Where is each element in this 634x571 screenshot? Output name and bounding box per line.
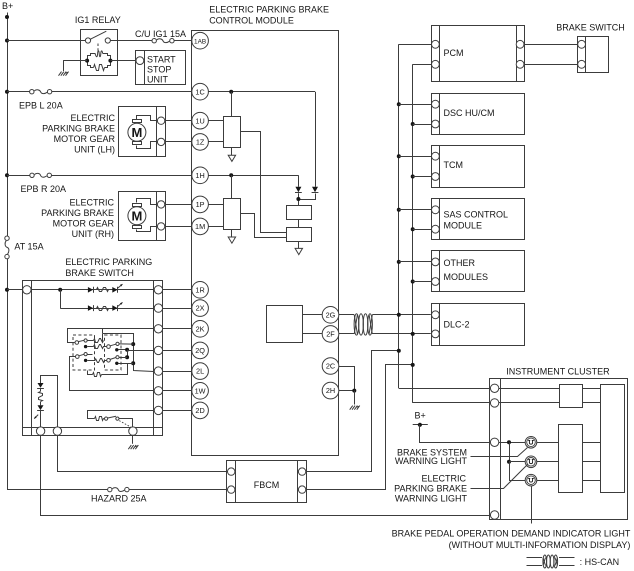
box rocker dashed left <box>73 335 95 370</box>
wire LED chain to pin <box>40 411 42 427</box>
svg-text:MOTOR GEAR: MOTOR GEAR <box>53 218 115 228</box>
label BRAKE SWITCH <box>556 23 625 33</box>
svg-text:2C: 2C <box>326 362 335 371</box>
svg-text:1C: 1C <box>195 87 204 96</box>
label SAS CONTROL MODULE <box>444 209 509 230</box>
box electric parking brake control module <box>192 31 339 456</box>
wire B+ to cluster pin3 <box>420 425 491 443</box>
wire bus to DSC pin 1 <box>399 104 432 106</box>
wire transceiver to 2G <box>302 314 322 316</box>
resistor 2D row <box>95 417 104 421</box>
pin DLC-2 2 <box>432 330 440 338</box>
pin brake switch 1 <box>578 40 586 48</box>
pin DLC-2 1 <box>432 311 440 319</box>
pin DSC 1 <box>432 100 440 108</box>
svg-text:UNIT (LH): UNIT (LH) <box>74 145 115 155</box>
pin switch 2K <box>154 325 162 333</box>
pin switch bottom 2 <box>53 427 61 435</box>
ground relay coil <box>59 72 69 76</box>
pin DSC 2 <box>432 120 440 128</box>
pin 2D control module <box>192 402 209 419</box>
wire lamp1 to driver block <box>537 442 559 444</box>
junction dot brake switch supply branch <box>5 288 9 292</box>
svg-text:ELECTRIC PARKING BRAKE: ELECTRIC PARKING BRAKE <box>209 5 329 15</box>
label BRAKE PEDAL OPERATION DEMAND INDICATOR LIGHT <box>392 529 631 550</box>
wire bus to TCM pin 1 <box>399 156 432 158</box>
wire switch to module at y350.4 <box>163 350 192 352</box>
wire lamp3 to bottom label <box>531 486 533 523</box>
diode row 1R series <box>88 287 94 293</box>
twisted pair HS-CAN <box>354 314 372 335</box>
wire hazard feed <box>7 489 108 491</box>
pin OTHER 1 <box>432 258 440 266</box>
junction dot relay coil left <box>85 59 89 63</box>
pin PCM right 1 <box>516 40 524 48</box>
pin 1AB control module <box>192 32 209 49</box>
ground switch <box>128 445 138 449</box>
wire pin3 to lamp1 <box>499 442 525 444</box>
diode LED chain bottom <box>37 405 44 410</box>
wire driver to main 3 <box>582 480 601 482</box>
diode D2 <box>312 187 319 193</box>
wire 2H to ground node <box>339 390 355 392</box>
wire B+ rail to IG1 relay contact <box>7 40 85 42</box>
wire 1W feed <box>70 357 154 391</box>
pin PCM left 2 <box>432 60 440 68</box>
svg-text:UNIT: UNIT <box>147 74 168 84</box>
diode LED row 1R <box>112 287 117 293</box>
wire switch to module at y371.1 <box>163 371 192 373</box>
wire FBCM to CAN L <box>306 365 413 490</box>
wire bus to SAS pin 1 <box>399 209 432 211</box>
wire switch pin1 to instrument cluster <box>41 436 491 516</box>
leader electric parking brake warning light <box>471 465 528 489</box>
pin switch supply <box>23 286 31 294</box>
wire monitor B to arrow <box>298 241 300 248</box>
svg-text:M: M <box>131 208 142 223</box>
wire switch row 1R <box>31 289 154 291</box>
block cluster main <box>601 385 625 493</box>
wire 1C right branch down to diode D2 <box>315 92 317 187</box>
wire CAN H to cluster <box>399 388 491 390</box>
wire bus to PCM pin 2 <box>413 64 432 66</box>
diode LED row 2X <box>112 305 117 311</box>
box TCM <box>432 145 525 187</box>
block cluster CAN interface <box>560 385 583 408</box>
junction dot EPB L branch <box>5 90 9 94</box>
wire CAN H bus <box>398 44 400 388</box>
wire diode outputs join <box>299 193 316 206</box>
leader brake system warning light <box>471 448 528 457</box>
wire twist to DLC-2 pin 2 <box>372 333 431 335</box>
pin 1H control module <box>192 167 209 184</box>
wire driver to main 2 <box>582 461 601 463</box>
junction dot 2Q node upper <box>125 348 129 352</box>
wire 1Z to driver 1 <box>208 141 223 143</box>
wire 1U to driver 1 <box>208 120 223 122</box>
pin PCM right 2 <box>516 60 524 68</box>
box START STOP UNIT <box>136 51 186 85</box>
svg-text:B+: B+ <box>415 411 426 421</box>
wire lamp2 to driver block <box>537 461 559 463</box>
svg-text:HAZARD 25A: HAZARD 25A <box>91 494 147 504</box>
label DLC-2 <box>444 320 470 330</box>
fuse AT 15A <box>5 236 9 259</box>
junction dot rocker rail lower <box>131 361 135 365</box>
wire lamp3 to driver block <box>537 480 559 482</box>
resistor LED chain <box>39 392 43 402</box>
svg-text:CONTROL MODULE: CONTROL MODULE <box>209 16 294 26</box>
wire FBCM to CAN H <box>306 351 399 472</box>
wire B+ vertical rail <box>7 13 9 490</box>
arrow internal ground driver 1 <box>228 155 235 161</box>
wire 1M to driver 2 <box>208 226 223 228</box>
resistor rocker R4 <box>88 364 128 377</box>
svg-text:1H: 1H <box>195 171 204 180</box>
wire switch to module at y390.8 <box>163 390 192 392</box>
wire relay coil to start stop unit <box>110 60 136 62</box>
ground module signal ground <box>350 406 360 410</box>
block driver 2 <box>224 199 241 230</box>
wire B+ rail to switch supply pin <box>7 289 22 291</box>
wire bus to OTHER pin 1 <box>399 261 432 263</box>
svg-text:DLC-2: DLC-2 <box>444 320 470 330</box>
relay IG1 box <box>81 30 118 76</box>
legend twisted pair symbol <box>527 555 575 568</box>
pin FBCM left 2 <box>228 486 235 493</box>
fuse EPB R 20A <box>30 173 52 177</box>
fuse HAZARD 25A <box>108 487 130 491</box>
junction dot CAN H y350.8 <box>397 349 401 353</box>
wire switch to module at y289.8 <box>163 289 192 291</box>
svg-text:PARKING BRAKE: PARKING BRAKE <box>42 124 115 134</box>
svg-text:1R: 1R <box>195 285 204 294</box>
wire motor RH pin to 1P <box>165 204 192 206</box>
svg-text:EPB L 20A: EPB L 20A <box>19 101 63 111</box>
diode row 2X series <box>88 305 94 311</box>
label DSC HU/CM <box>444 108 495 118</box>
junction dot CAN H y314.8 <box>397 313 401 317</box>
pin switch bottom ground <box>129 427 137 435</box>
block driver 1 <box>224 117 241 148</box>
svg-text:IG1 RELAY: IG1 RELAY <box>75 15 121 25</box>
wire driver to main 1 <box>582 442 601 444</box>
wire cluster pin1 to block <box>499 388 560 390</box>
wire bus to PCM pin 1 <box>399 44 432 46</box>
box BRAKE SWITCH <box>578 36 609 72</box>
box instrument cluster <box>490 379 628 520</box>
block cluster lamp driver <box>559 425 583 493</box>
pin TCM 2 <box>432 173 440 181</box>
wire motor LH pin to 1Z <box>165 141 192 143</box>
box FBCM <box>227 461 307 503</box>
wire 2Q node link <box>127 350 129 357</box>
wire EPB L fuse to pin 1C <box>52 91 192 93</box>
node B+ cluster <box>413 411 428 427</box>
arrow LED row 2X <box>118 302 123 306</box>
junction dot CAN L y364.9 <box>411 363 415 367</box>
wire 2G to twist <box>339 314 354 316</box>
pin 2Q control module <box>192 342 209 359</box>
box DLC-2 <box>432 304 525 346</box>
svg-text:INSTRUMENT CLUSTER: INSTRUMENT CLUSTER <box>506 366 610 376</box>
svg-text:2X: 2X <box>196 304 205 313</box>
wire rocker right rail <box>103 334 154 372</box>
svg-text:SAS CONTROL: SAS CONTROL <box>444 209 509 219</box>
wire 2D switch to ground pin <box>119 419 133 428</box>
svg-text:2L: 2L <box>196 367 204 376</box>
wire 2C to ground node <box>339 367 355 391</box>
svg-text:UNIT (RH): UNIT (RH) <box>72 229 114 239</box>
svg-text:MODULE: MODULE <box>444 220 483 230</box>
svg-text:2F: 2F <box>326 330 335 339</box>
svg-text:PCM: PCM <box>444 48 464 58</box>
junction dot lamp feed 2 <box>507 460 511 464</box>
svg-text:1W: 1W <box>195 386 206 395</box>
relay IG1 coil lower branch <box>88 61 111 68</box>
junction dot CAN L y124 <box>411 122 415 126</box>
wire feed to lamp3 <box>510 462 526 481</box>
pin SAS 2 <box>432 225 440 233</box>
junction dot rocker rail upper <box>131 342 135 346</box>
lamp brake system warning light <box>525 437 537 449</box>
contact pole B2 <box>107 356 119 365</box>
pin cluster 3 <box>490 438 498 446</box>
wire pole B1 upper contact to rail <box>119 343 133 345</box>
junction dot relay coil right <box>108 59 112 63</box>
diode D1 <box>295 187 302 193</box>
svg-text:B+: B+ <box>2 1 13 11</box>
label motor gear unit LH <box>42 113 115 154</box>
label HAZARD 25A <box>91 494 147 504</box>
pin cluster 4 <box>490 511 498 519</box>
resistor rocker R3 <box>87 359 106 363</box>
pin 1C control module <box>192 83 209 100</box>
junction dot IG1 relay branch <box>5 39 9 43</box>
wire relay contact to C/U IG1 fuse <box>110 40 152 42</box>
wire pole B2 upper contact to 2Q node <box>119 357 127 359</box>
wire B+ rail to EPB L fuse <box>7 91 30 93</box>
resistor row 1R <box>97 288 109 292</box>
wire cluster pin2 to block <box>499 402 560 404</box>
junction dot EPB R branch <box>5 173 9 177</box>
svg-text:OTHER: OTHER <box>444 258 476 268</box>
wire driver 1 output <box>241 132 287 233</box>
junction dot 2C 2H <box>352 389 356 393</box>
pin 2X control module <box>192 300 209 317</box>
pin PCM left 1 <box>432 40 440 48</box>
wire 2Q feed <box>127 350 154 352</box>
pin cluster 1 <box>490 384 498 392</box>
wire bus to OTHER pin 2 <box>413 281 432 283</box>
wire driver 1 to arrow <box>231 147 233 155</box>
wire 1P to driver 2 <box>208 204 223 206</box>
svg-text:BRAKE PEDAL OPERATION DEMAND I: BRAKE PEDAL OPERATION DEMAND INDICATOR L… <box>392 529 631 539</box>
relay IG1 contact circles and blade <box>85 31 110 43</box>
label EPB R 20A <box>21 184 67 194</box>
wire rocker top link <box>102 329 104 334</box>
svg-text:ELECTRIC: ELECTRIC <box>69 198 114 208</box>
label INSTRUMENT CLUSTER <box>506 366 610 376</box>
svg-text:PARKING BRAKE: PARKING BRAKE <box>394 484 467 494</box>
pin switch 2Q <box>154 346 162 354</box>
pin 2L control module <box>192 363 209 380</box>
wire PCM to brake switch 1 <box>524 44 577 46</box>
wire driver 2 output <box>241 214 287 238</box>
wire feed to lamp2 <box>509 461 525 463</box>
svg-text:ELECTRIC: ELECTRIC <box>421 474 466 484</box>
wire ground node down <box>354 391 356 405</box>
box SAS CONTROL MODULE <box>432 199 525 240</box>
fuse C/U IG1 15A <box>152 39 174 43</box>
pin 1P control module <box>192 196 209 213</box>
svg-text:ELECTRIC PARKING: ELECTRIC PARKING <box>65 257 152 267</box>
label ELECTRIC PARKING BRAKE SWITCH <box>65 257 152 278</box>
svg-text:START: START <box>147 54 176 64</box>
wire 2F to twist <box>339 333 354 335</box>
wire fuse to pin 1AB <box>174 40 192 42</box>
junction dot CAN L y229.2 <box>411 227 415 231</box>
pin 2F control module <box>322 326 339 343</box>
wire LED chain mid <box>40 388 42 405</box>
wire 1H to internal bus <box>208 175 298 177</box>
resistor rocker R1 <box>87 334 103 343</box>
svg-text:M: M <box>131 125 142 140</box>
junction dot 1H branch <box>229 173 233 177</box>
wire driver 2 to arrow <box>231 229 233 237</box>
wire switch to module at y410.4 <box>163 410 192 412</box>
wire bus to DSC pin 2 <box>413 124 432 126</box>
switch 2D contacts <box>104 416 120 420</box>
junction dot B+ rail top <box>5 15 9 19</box>
svg-text:2H: 2H <box>326 386 335 395</box>
relay IG1 coil inductor <box>95 51 103 57</box>
label IG1 RELAY <box>75 15 121 25</box>
arrow internal ground monitor <box>295 248 302 254</box>
pin switch bottom 1 <box>36 427 44 435</box>
svg-text:AT 15A: AT 15A <box>14 242 43 252</box>
svg-text:WARNING LIGHT: WARNING LIGHT <box>395 456 468 466</box>
diode LED chain top <box>37 383 44 389</box>
block monitor A <box>287 206 312 220</box>
wire bus to TCM pin 2 <box>413 176 432 178</box>
wire transceiver to 2F <box>302 333 322 335</box>
label PCM <box>444 48 464 58</box>
resistor row 2X <box>97 307 109 311</box>
wire switch ground pin down <box>132 435 134 444</box>
pin OTHER 2 <box>432 278 440 286</box>
label ELECTRIC PARKING BRAKE WARNING LIGHT <box>394 474 467 504</box>
contact pole A1 <box>75 339 87 348</box>
svg-text:STOP: STOP <box>147 64 171 74</box>
wire 1C to internal bus <box>208 91 315 93</box>
fuse EPB L 20A <box>30 90 52 94</box>
svg-text:1P: 1P <box>196 200 205 209</box>
box DSC HU/CM <box>432 93 525 135</box>
lamp electric parking brake warning light <box>525 456 537 468</box>
pin switch 1R <box>154 286 162 294</box>
label OTHER MODULES <box>444 258 489 282</box>
junction dot CAN L y176.5 <box>411 175 415 179</box>
pin switch 2D <box>154 406 162 414</box>
pin 1R control module <box>192 282 209 299</box>
box OTHER MODULES <box>432 251 525 292</box>
wire 2K feed <box>68 329 154 343</box>
svg-text:1Z: 1Z <box>196 138 205 147</box>
junction dot CAN H y261.9 <box>397 260 401 264</box>
wire cluster block to main 1 <box>582 388 601 390</box>
block CAN transceiver <box>267 306 303 343</box>
box electric parking brake motor gear unit LH <box>119 107 166 157</box>
svg-text:2D: 2D <box>195 406 204 415</box>
pin brake switch 2 <box>578 60 586 68</box>
svg-text:DSC HU/CM: DSC HU/CM <box>444 108 495 118</box>
junction dot diode join <box>296 197 300 201</box>
pin 1U control module <box>192 112 209 129</box>
block monitor B <box>287 228 312 242</box>
arrow internal ground driver 2 <box>228 237 235 243</box>
node B+ battery feed label <box>2 1 13 11</box>
pin switch 1W <box>154 387 162 395</box>
pin cluster 2 <box>490 399 498 407</box>
svg-text:MOTOR GEAR: MOTOR GEAR <box>54 134 116 144</box>
wire switch pin2 to FBCM <box>58 436 228 472</box>
wire B+ rail to EPB R fuse <box>7 175 30 177</box>
wire row 1R to row 2X <box>60 290 62 308</box>
wire monitor A to B <box>298 219 300 228</box>
relay IG1 coil resistor <box>94 65 105 71</box>
wire LED chain bridge <box>41 376 58 428</box>
resistor rocker R2 <box>87 345 107 349</box>
wire 1H branch down to driver 2 <box>231 175 233 199</box>
pin 2K control module <box>192 321 209 338</box>
wire lamp feed down <box>509 442 511 462</box>
pin 2C control module <box>322 358 339 375</box>
wire hazard fuse to FBCM <box>129 489 227 491</box>
svg-text:2K: 2K <box>196 324 205 333</box>
wire bus to SAS pin 2 <box>413 229 432 231</box>
svg-text:1M: 1M <box>195 222 205 231</box>
svg-text:: HS-CAN: : HS-CAN <box>580 557 620 567</box>
relay IG1 armature dashed link <box>97 44 99 53</box>
box rocker dashed right <box>105 335 122 370</box>
wire switch to module at y308.1 <box>163 308 192 310</box>
svg-text:2Q: 2Q <box>195 346 205 355</box>
wire 2D feed <box>88 411 154 419</box>
junction dot 1C branch <box>229 90 233 94</box>
pin FBCM left 1 <box>228 468 235 475</box>
pin 2G control module <box>322 307 339 324</box>
svg-text:MODULES: MODULES <box>444 272 489 282</box>
label ELECTRIC PARKING BRAKE CONTROL MODULE <box>209 5 329 26</box>
label AT 15A <box>14 242 43 252</box>
svg-text:2G: 2G <box>326 310 336 319</box>
pin 1Z control module <box>192 134 209 151</box>
svg-text:1U: 1U <box>195 116 204 125</box>
label FBCM <box>254 480 280 490</box>
pin 2H control module <box>322 382 339 399</box>
junction dot CAN L y333.9 <box>411 332 415 336</box>
junction dot row 1R <box>58 288 62 292</box>
pin switch 2X <box>154 304 162 312</box>
wire cluster block to main 2 <box>582 402 601 404</box>
contact pole A2 <box>76 353 88 363</box>
junction dot CAN H y209.8 <box>397 208 401 212</box>
wire twist to DLC-2 pin 1 <box>372 314 431 316</box>
pin SAS 1 <box>432 206 440 214</box>
label motor gear unit RH <box>41 198 114 239</box>
box electric parking brake switch <box>22 280 163 435</box>
